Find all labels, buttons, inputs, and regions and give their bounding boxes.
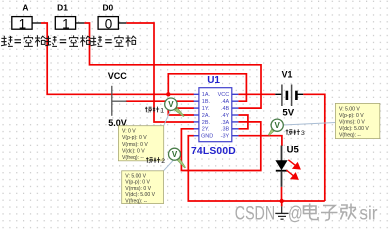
probe 2 label — [146, 157, 160, 163]
svg-text:V(p-p): 0 V: V(p-p): 0 V — [125, 180, 150, 186]
svg-text:V: 5.00 V: V: 5.00 V — [339, 106, 360, 112]
wire GND pin to ground rail — [188, 136, 324, 201]
wire A to 1A — [41, 23, 194, 94]
ground — [275, 201, 288, 219]
svg-text:1Y.: 1Y. — [202, 106, 210, 112]
svg-text:U1: U1 — [207, 75, 220, 86]
wire 3Y to LED anode — [238, 136, 282, 146]
switch A — [12, 3, 41, 32]
svg-text:V: V — [168, 100, 174, 109]
VCC power symbol — [108, 71, 128, 128]
svg-text:@: @ — [288, 201, 303, 224]
probe 1 — [165, 98, 184, 117]
svg-text:V: V — [172, 150, 178, 159]
LED U5 — [275, 144, 299, 187]
probe info box 2 — [122, 161, 173, 205]
watermark fake glyph zi — [321, 206, 338, 221]
node junction A/4A — [166, 92, 170, 96]
key caption 键 = 空格 (x3, fake CJK glyphs) — [1, 36, 13, 47]
svg-text:V: V — [275, 121, 281, 130]
svg-text:.4Y: .4Y — [221, 113, 230, 119]
probe 3 label — [286, 129, 300, 135]
svg-text:V(freq): --: V(freq): -- — [122, 155, 144, 161]
svg-text:V: 0 V: V: 0 V — [122, 129, 136, 135]
svg-text:1: 1 — [62, 17, 70, 32]
svg-text:U5: U5 — [287, 144, 300, 155]
svg-text:V(rms): 0 V: V(rms): 0 V — [339, 120, 365, 126]
pin names — [201, 92, 230, 139]
wire VCC to 1B — [126, 100, 194, 102]
switch D1 — [55, 3, 84, 32]
wire 4Y to 3B — [238, 115, 248, 129]
svg-text:2Y.: 2Y. — [202, 127, 210, 133]
svg-text:3: 3 — [301, 130, 305, 137]
svg-text:sir: sir — [359, 201, 377, 223]
pin stubs left — [194, 94, 199, 135]
空 — [24, 35, 33, 46]
probe 2 — [169, 148, 186, 168]
键 — [1, 36, 7, 46]
svg-text:A: A — [22, 3, 28, 13]
格 — [35, 35, 46, 46]
svg-text:V(dc): 5.00 V: V(dc): 5.00 V — [339, 126, 369, 132]
svg-text:2B.: 2B. — [202, 120, 211, 126]
svg-text:74LS00D: 74LS00D — [191, 146, 236, 157]
svg-text:VCC: VCC — [218, 92, 230, 98]
LED emission arrows — [286, 160, 300, 179]
wire 2Y to 3A — [181, 122, 260, 171]
node junction LED/ground — [280, 199, 284, 203]
svg-text:1: 1 — [160, 107, 164, 114]
svg-text:V(dc): 5.00 V: V(dc): 5.00 V — [125, 192, 155, 198]
wire node A to 4A (routed over U1 label) — [168, 74, 246, 101]
watermark fake glyph zhang — [341, 204, 357, 220]
watermark CSDN @dianzizhang sir — [235, 201, 378, 224]
svg-text:2: 2 — [161, 158, 165, 165]
watermark fake glyph dian — [304, 204, 319, 220]
= sign 1 — [15, 40, 22, 43]
svg-text:V(p-p): 0 V: V(p-p): 0 V — [122, 135, 147, 141]
svg-text:V1: V1 — [282, 70, 293, 80]
svg-text:.4B: .4B — [221, 106, 230, 112]
wire D1 to 4B — [84, 23, 261, 108]
svg-text:2A.: 2A. — [202, 113, 211, 119]
wire VCC pin to battery — [238, 93, 275, 95]
wire LED cathode to ground rail — [281, 187, 283, 201]
IC U1 74LS00D — [191, 75, 238, 157]
svg-text:V(dc): 0 V: V(dc): 0 V — [122, 148, 145, 154]
battery V1 — [275, 70, 303, 119]
svg-text:V(p-p): 0 V: V(p-p): 0 V — [339, 113, 364, 119]
svg-text:VCC: VCC — [108, 71, 128, 81]
probe 3 — [268, 119, 283, 135]
svg-text:V: 5.00 V: V: 5.00 V — [125, 173, 146, 179]
svg-text:D1: D1 — [57, 3, 68, 13]
svg-text:.3A: .3A — [221, 120, 230, 126]
svg-text:GND: GND — [201, 134, 213, 140]
svg-text:5V: 5V — [282, 107, 294, 118]
probe 1 label — [145, 107, 159, 113]
wire battery plus to ground rail — [303, 94, 325, 201]
svg-text:D0: D0 — [102, 3, 113, 13]
svg-text:.3B: .3B — [221, 127, 230, 133]
svg-text:V(freq): --: V(freq): -- — [125, 199, 147, 205]
pin stubs right — [232, 94, 239, 135]
probe info box 1 — [118, 111, 170, 161]
wire D0 to 2B — [126, 23, 194, 122]
wire 1Y to 2A — [168, 108, 194, 115]
svg-text:V(freq): --: V(freq): -- — [339, 133, 361, 139]
svg-text:-3Y: -3Y — [221, 134, 230, 140]
svg-text:CSDN: CSDN — [235, 202, 275, 224]
svg-text:V(rms): 0 V: V(rms): 0 V — [125, 186, 151, 192]
switch D0 — [98, 3, 126, 32]
probe info box 3 — [283, 103, 380, 138]
svg-text:1A.: 1A. — [202, 92, 211, 98]
svg-text:.4A: .4A — [221, 99, 230, 105]
svg-text:0: 0 — [105, 17, 113, 32]
svg-text:1: 1 — [19, 17, 27, 32]
svg-text:V(rms): 0 V: V(rms): 0 V — [122, 142, 148, 148]
svg-text:1B.: 1B. — [202, 99, 211, 105]
